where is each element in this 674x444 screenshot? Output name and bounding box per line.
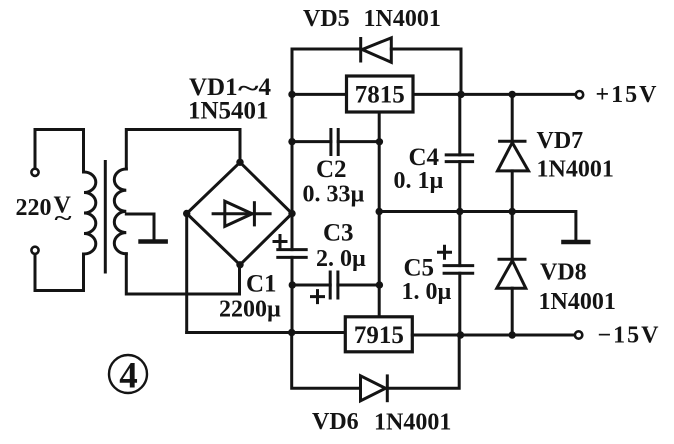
diode VD5 wire left xyxy=(292,48,361,51)
svg-text:1N4001: 1N4001 xyxy=(537,157,614,183)
wire 7815 output to +15V terminal xyxy=(413,93,576,96)
diode VD5 cathode bar xyxy=(359,37,362,63)
svg-text:VD7: VD7 xyxy=(537,128,584,154)
diode VD6 triangle xyxy=(361,376,386,401)
node C2 left junction xyxy=(288,138,295,145)
svg-text:220: 220 xyxy=(16,195,52,221)
wire primary top xyxy=(35,130,84,173)
wire center tap xyxy=(126,214,154,240)
AC source terminal top xyxy=(31,169,38,176)
wire + rail upper (bridge + up to VD5 corner) xyxy=(291,49,294,250)
node VD7 bottom junction xyxy=(509,208,516,215)
transformer T primary winding xyxy=(84,172,96,254)
capacitor C5 wire top xyxy=(458,212,461,266)
diode VD8 cathode bar xyxy=(498,258,527,261)
capacitor C4 wire top xyxy=(458,94,461,154)
node bridge - (left) xyxy=(183,210,190,217)
svg-text:7815: 7815 xyxy=(355,82,405,109)
node VD7 top junction xyxy=(509,91,516,98)
diode VD7 wire top xyxy=(511,94,514,141)
diode VD7 cathode bar xyxy=(498,140,526,143)
svg-text:4: 4 xyxy=(119,356,138,397)
svg-text:C5: C5 xyxy=(404,255,435,282)
diode VD8 triangle xyxy=(497,261,526,289)
bridge rectifier VD1~4 diamond xyxy=(187,162,292,264)
svg-text:C4: C4 xyxy=(409,144,440,171)
diode VD6 cathode bar xyxy=(386,374,389,402)
svg-text:0. 33µ: 0. 33µ xyxy=(303,182,365,208)
figure number 4 circle xyxy=(109,355,147,393)
terminal +15V xyxy=(576,91,583,98)
node VD6 return junction xyxy=(457,331,464,338)
ground (center tap) xyxy=(138,239,168,244)
node 7815 input junction xyxy=(288,91,295,98)
capacitor C4 0.1u plates xyxy=(445,153,474,156)
svg-text:2. 0µ: 2. 0µ xyxy=(316,246,366,272)
node VD8 bottom junction xyxy=(509,331,516,338)
svg-text:1N4001: 1N4001 xyxy=(364,6,441,32)
wire 7815 input xyxy=(292,93,347,96)
wire output ground rail xyxy=(379,212,576,240)
svg-text:VD6: VD6 xyxy=(312,409,359,435)
bridge inner diode symbol xyxy=(212,201,272,226)
svg-text:1N4001: 1N4001 xyxy=(539,289,616,315)
capacitor C3 wire left xyxy=(292,284,330,287)
capacitor C4 wire bottom xyxy=(458,162,461,212)
node bridge AC top xyxy=(236,159,243,166)
diode VD5 wire right xyxy=(391,49,461,94)
svg-text:7915: 7915 xyxy=(354,322,404,349)
svg-text:−15V: −15V xyxy=(598,323,661,349)
svg-text:VD5: VD5 xyxy=(303,6,350,32)
capacitor C3 wire right xyxy=(338,284,379,287)
transformer T secondary winding xyxy=(114,169,126,254)
diode VD8 wire bottom xyxy=(511,288,514,335)
svg-text:1N4001: 1N4001 xyxy=(374,410,451,436)
wire secondary top to bridge xyxy=(126,130,240,170)
C1 polarity + xyxy=(274,236,286,248)
svg-text:C3: C3 xyxy=(323,220,354,247)
node C3 left junction xyxy=(289,281,296,288)
capacitor C5 1.0u plates xyxy=(443,264,475,267)
diode VD7 triangle xyxy=(498,143,529,171)
svg-text:C1: C1 xyxy=(246,271,277,298)
svg-text:1. 0µ: 1. 0µ xyxy=(402,279,452,305)
C3 polarity + xyxy=(312,291,324,303)
wire below C1 to bottom rail xyxy=(291,257,294,332)
wire bridge minus down xyxy=(185,214,188,333)
node C3 right junction xyxy=(376,281,383,288)
capacitor C2 0.33u plates xyxy=(329,128,332,156)
node VD5 return junction xyxy=(457,91,464,98)
svg-text:VD8: VD8 xyxy=(540,260,587,286)
svg-text:2200µ: 2200µ xyxy=(219,297,281,323)
C5 polarity + xyxy=(439,246,451,258)
node ground rail left junction xyxy=(376,208,383,215)
svg-text:+15V: +15V xyxy=(596,82,659,108)
wire primary bottom xyxy=(35,254,84,291)
svg-text:0. 1µ: 0. 1µ xyxy=(394,168,444,194)
capacitor C5 wire bottom xyxy=(458,273,461,335)
wire secondary bottom to bridge xyxy=(126,254,239,294)
node C4 bottom junction xyxy=(456,208,463,215)
capacitor C2 wire right xyxy=(338,140,379,143)
node C2 right junction xyxy=(376,138,383,145)
wire bottom rail to 7915 input xyxy=(187,331,346,334)
node bottom rail junction xyxy=(288,329,295,336)
wire 7915 output to -15V terminal xyxy=(412,334,575,337)
transformer core xyxy=(104,160,107,274)
diode VD8 wire top xyxy=(511,212,514,260)
svg-text:~: ~ xyxy=(55,205,73,230)
capacitor C1 2200u plates xyxy=(276,248,307,251)
AC source terminal bottom xyxy=(31,247,38,254)
node bridge + (right) xyxy=(288,210,295,217)
wire middle (ground) rail vertical xyxy=(378,112,381,317)
svg-text:1N5401: 1N5401 xyxy=(188,98,269,125)
capacitor C3 2.0u plates xyxy=(329,271,332,300)
terminal -15V xyxy=(575,331,582,338)
svg-text:C2: C2 xyxy=(316,156,347,183)
ground (output) xyxy=(561,240,590,245)
regulator U2 7915 xyxy=(345,317,412,352)
diode VD7 wire bottom xyxy=(511,171,514,212)
regulator U1 7815 xyxy=(347,76,414,112)
capacitor C2 wire left xyxy=(292,140,331,143)
wire bottom junction down to VD6 xyxy=(292,333,361,389)
diode VD6 wire right xyxy=(387,335,459,388)
diode VD5 triangle xyxy=(362,38,391,63)
node bridge AC bottom xyxy=(236,261,243,268)
